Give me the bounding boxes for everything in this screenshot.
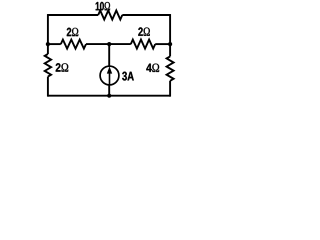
label 10 ohm xyxy=(96,2,110,11)
label 2 ohm middle-right xyxy=(138,27,150,35)
wire bottom rail xyxy=(48,95,170,97)
wire current source top lead xyxy=(108,44,110,66)
wire middle rail segment B xyxy=(86,43,131,45)
label 2 ohm left branch xyxy=(56,63,68,71)
label 2 ohm middle-left xyxy=(67,28,78,36)
resistor 2-ohm vertical zigzag (left branch) xyxy=(45,54,51,77)
wire right vertical lower segment xyxy=(169,81,171,97)
resistor 10-ohm zigzag (top) xyxy=(98,11,122,20)
wire right vertical upper segment xyxy=(169,14,171,56)
label 3A current source xyxy=(122,72,134,81)
wire top rail right segment xyxy=(122,14,170,16)
wire middle rail segment C xyxy=(155,43,170,45)
node dot center middle xyxy=(107,42,111,46)
resistor 2-ohm zigzag (middle left) xyxy=(61,40,86,49)
wire middle rail segment A xyxy=(48,43,61,45)
wire current source bottom lead xyxy=(108,85,110,96)
resistor 2-ohm zigzag (middle right) xyxy=(131,40,155,49)
wire left vertical lower segment xyxy=(47,77,49,97)
node dot left middle xyxy=(46,42,50,46)
label 4 ohm right branch xyxy=(146,64,159,72)
current source 3A circle xyxy=(100,66,119,85)
wire top rail left segment xyxy=(48,14,98,16)
resistor 4-ohm vertical zigzag (right branch) xyxy=(167,56,174,80)
node dot right middle xyxy=(168,42,172,46)
current source arrow xyxy=(107,66,112,85)
wire left vertical upper segment xyxy=(47,14,49,54)
node dot bottom center xyxy=(107,94,111,98)
